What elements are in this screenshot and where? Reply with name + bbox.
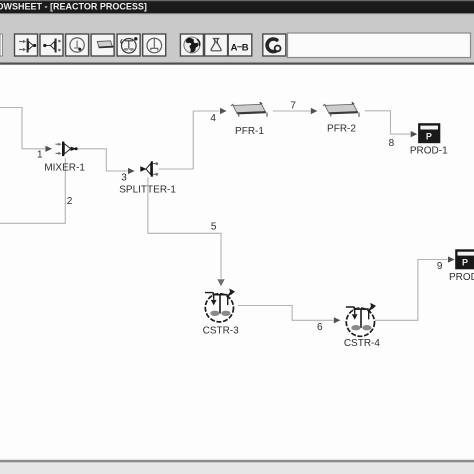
partial button at left edge xyxy=(0,34,3,56)
wire stream 3 xyxy=(78,149,128,171)
svg-text:6: 6 xyxy=(317,322,323,333)
button mixer xyxy=(15,34,38,56)
svg-text:7: 7 xyxy=(290,101,296,112)
svg-text:P: P xyxy=(426,131,432,141)
svg-text:PFR-2: PFR-2 xyxy=(327,124,356,135)
button CSTR simple xyxy=(143,34,166,56)
svg-text:8: 8 xyxy=(389,138,395,149)
arrow stream 6 into CSTR-4 xyxy=(334,317,341,323)
reactor PFR-1 xyxy=(231,102,267,117)
button reactor circle xyxy=(66,34,89,56)
toolbar white recessed panel xyxy=(288,33,471,58)
arrow stream 4 into PFR-1 xyxy=(220,108,227,114)
wire stream 4 xyxy=(159,111,220,169)
svg-text:PFR-1: PFR-1 xyxy=(235,126,264,137)
splitter SPLITTER-1 xyxy=(140,161,158,176)
reactor CSTR-4 xyxy=(346,303,376,336)
product icon PROD-2 xyxy=(456,250,474,268)
wire stream 5 xyxy=(148,178,221,279)
button globe xyxy=(180,34,203,56)
svg-text:A: A xyxy=(231,43,238,54)
svg-text:OWSHEET - [REACTOR PROCESS]: OWSHEET - [REACTOR PROCESS] xyxy=(0,1,147,11)
product icon PROD-1 xyxy=(419,124,440,142)
arrow stream 8 into PROD-1 xyxy=(411,131,418,137)
toolbar separator dark line xyxy=(0,63,474,65)
button A-B xyxy=(228,34,252,56)
svg-text:CSTR-4: CSTR-4 xyxy=(344,338,381,349)
button phone xyxy=(263,34,286,56)
bottom dark line xyxy=(0,460,474,463)
button flask xyxy=(205,34,228,56)
svg-text:9: 9 xyxy=(437,261,443,272)
reactor CSTR-3 xyxy=(205,289,235,322)
reactor PFR-2 xyxy=(323,102,359,117)
button CSTR kinetic xyxy=(117,34,140,56)
wire stream 9 xyxy=(375,260,448,321)
svg-text:3: 3 xyxy=(121,172,127,183)
wire stream 2 xyxy=(0,158,65,224)
title bar xyxy=(0,0,474,13)
arrow stream 9 into PROD-2 xyxy=(448,256,455,262)
bottom gray band xyxy=(0,462,474,474)
arrow stream 5 into CSTR-3 xyxy=(217,279,224,286)
svg-text:PROD-1: PROD-1 xyxy=(410,145,448,156)
menu band xyxy=(0,14,474,62)
svg-text:PROD-: PROD- xyxy=(449,272,474,283)
toolbar buttons group 1 xyxy=(15,34,286,56)
button PFR xyxy=(91,34,114,56)
arrow stream 3 into splitter xyxy=(128,168,135,174)
wire stream 1 xyxy=(0,108,45,149)
wire stream 7 xyxy=(273,110,311,112)
arrow stream 1 into mixer xyxy=(45,146,52,152)
arrow stream 7 into PFR-2 xyxy=(311,108,318,114)
svg-text:MIXER-1: MIXER-1 xyxy=(44,163,85,174)
svg-text:B: B xyxy=(242,43,249,54)
svg-text:5: 5 xyxy=(211,222,217,233)
mixer MIXER-1 xyxy=(56,142,78,157)
svg-text:P: P xyxy=(462,258,468,268)
svg-text:4: 4 xyxy=(210,113,216,124)
svg-text:1: 1 xyxy=(37,150,43,161)
title bottom edge xyxy=(0,13,474,14)
button splitter xyxy=(40,34,63,56)
svg-text:2: 2 xyxy=(67,196,73,207)
wire stream 8 xyxy=(365,111,411,134)
wire stream 6 xyxy=(238,306,333,321)
svg-text:CSTR-3: CSTR-3 xyxy=(203,325,240,336)
